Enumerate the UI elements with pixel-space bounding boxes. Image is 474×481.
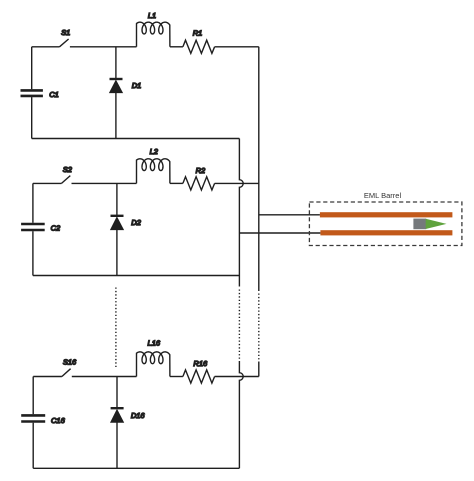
wire top left S2 <box>33 182 62 184</box>
wire top left S1 <box>32 46 60 48</box>
armature <box>413 219 426 230</box>
wire diode column lower D1 <box>115 93 117 139</box>
wire diode column dotted <box>115 288 117 369</box>
switch S2 <box>62 176 71 184</box>
resistor R2 <box>183 177 215 190</box>
wire left rail lower S1 <box>31 97 33 138</box>
wire inductor to resistor S1 <box>170 46 183 48</box>
barrel top rail <box>320 212 453 217</box>
wire diode column upper D16 <box>116 377 118 409</box>
wire to barrel top rail <box>259 214 320 216</box>
wire left bus solid lower <box>239 361 243 468</box>
inductor L2 <box>137 159 170 184</box>
svg-text:C1: C1 <box>49 90 59 99</box>
capacitor C2 <box>21 224 45 230</box>
resistor R16 <box>183 370 215 383</box>
svg-text:R16: R16 <box>193 359 208 368</box>
svg-text:EML Barrel: EML Barrel <box>364 191 402 200</box>
switch S1 <box>60 39 69 47</box>
svg-text:L1: L1 <box>148 11 156 20</box>
capacitor C1 <box>21 90 43 96</box>
wire right bus solid upper <box>258 47 260 291</box>
wire R2 to right bus <box>215 182 259 184</box>
barrel bottom rail <box>320 230 452 235</box>
wire stage1 bottom <box>32 138 240 140</box>
wire switch to inductor S2 <box>72 182 137 184</box>
svg-text:R1: R1 <box>193 29 203 38</box>
svg-text:D16: D16 <box>131 411 146 420</box>
wire right bus solid lower <box>258 362 260 377</box>
svg-text:R2: R2 <box>196 166 206 175</box>
switch S16 <box>62 369 71 377</box>
svg-text:D2: D2 <box>131 218 141 227</box>
wire diode column lower D16 <box>116 422 118 468</box>
EML barrel enclosure (dashed) <box>309 202 462 246</box>
wire left rail upper S16 <box>32 377 34 415</box>
svg-text:S2: S2 <box>63 165 73 174</box>
wire R1 to right bus <box>215 46 259 48</box>
wire left rail lower S2 <box>32 231 34 275</box>
wire top left S16 <box>33 376 62 378</box>
wire diode column upper D1 <box>115 47 117 79</box>
diode D1 <box>110 79 123 93</box>
wire R16 to right bus <box>215 376 259 378</box>
svg-text:C16: C16 <box>51 416 66 425</box>
capacitor C16 <box>21 415 45 421</box>
wire left bus solid upper <box>239 139 243 287</box>
projectile <box>426 219 447 229</box>
wire stage2 bottom <box>33 275 240 277</box>
wire diode column lower D2 <box>116 230 118 276</box>
wire left rail upper S2 <box>32 183 34 222</box>
wire left rail lower S16 <box>32 423 34 469</box>
wire diode column upper D2 <box>116 183 118 215</box>
inductor L16 <box>137 352 170 377</box>
svg-text:D1: D1 <box>132 81 142 90</box>
svg-text:S16: S16 <box>63 357 77 366</box>
wire left rail upper S1 <box>31 47 33 89</box>
wire to barrel bottom rail <box>239 232 320 234</box>
svg-text:L2: L2 <box>150 147 159 156</box>
wire right bus dotted <box>258 294 260 361</box>
svg-text:S1: S1 <box>61 28 70 37</box>
resistor R1 <box>183 40 215 53</box>
wire inductor to resistor S16 <box>170 376 183 378</box>
diode D2 <box>111 216 124 230</box>
svg-text:C2: C2 <box>51 223 61 232</box>
wire switch to inductor S16 <box>72 376 137 378</box>
wire inductor to resistor S2 <box>170 182 183 184</box>
inductor L1 <box>137 22 170 47</box>
wire switch to inductor S1 <box>70 46 137 48</box>
svg-text:L16: L16 <box>148 339 161 348</box>
wire stage16 bottom <box>33 467 239 469</box>
wire left bus dotted <box>238 290 240 360</box>
diode D16 <box>111 408 124 422</box>
